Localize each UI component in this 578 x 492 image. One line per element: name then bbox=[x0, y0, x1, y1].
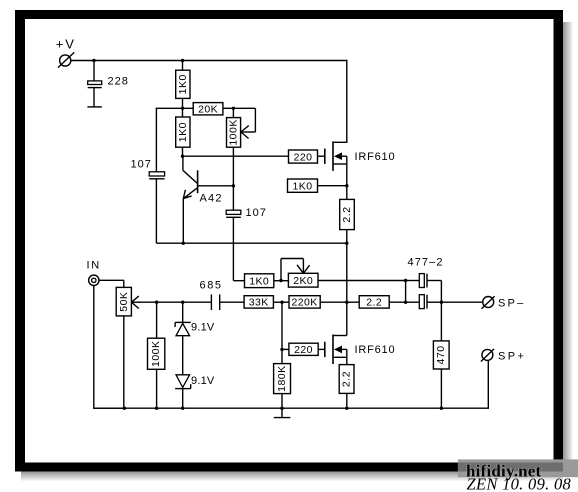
capacitor C6 477 (lower output cap) bbox=[406, 295, 442, 309]
svg-text:33K: 33K bbox=[249, 297, 269, 309]
label C1 value 228 bbox=[108, 76, 129, 88]
resistor R5 1K0 (horizontal, Q1 source to gate node) bbox=[288, 179, 347, 192]
node junction signal/zeners (dot) bbox=[181, 301, 184, 304]
svg-text:IRF610: IRF610 bbox=[355, 344, 396, 356]
label C5/C6 value 477-2 bbox=[408, 257, 444, 269]
capacitor C3 107 (Q2 base to feedback) bbox=[226, 186, 241, 281]
capacitor C5 477 (upper output cap) bbox=[406, 274, 442, 288]
wire signal line (wiper to C4) bbox=[138, 301, 211, 303]
capacitor C2 107 (left, node A decoupling) bbox=[149, 172, 164, 243]
mosfet Q1 body arrow (points left) bbox=[334, 152, 347, 160]
transistor Q2 emitter lead with arrow (down-left, to feedback line) bbox=[183, 188, 197, 244]
svg-text:IRF610: IRF610 bbox=[355, 151, 396, 163]
node junction R14/ground rail (dot) bbox=[280, 407, 283, 410]
svg-text:2K0: 2K0 bbox=[293, 275, 313, 287]
resistor R10 1K0 (feedback, horizontal) bbox=[245, 274, 289, 288]
wire source return line (C2/Q2 emitter to Q1 source node) bbox=[156, 242, 346, 244]
node junction 33K/220K/gate leg (dot) bbox=[273, 301, 289, 304]
resistor R4 220 (Q1 gate stopper) bbox=[289, 150, 325, 163]
svg-text:107: 107 bbox=[131, 159, 152, 171]
svg-text:470: 470 bbox=[435, 345, 447, 364]
svg-text:ZEN 10. 09. 08: ZEN 10. 09. 08 bbox=[467, 475, 572, 492]
mosfet Q3 drain stub (from output node) bbox=[333, 302, 347, 335]
svg-text:2.2: 2.2 bbox=[366, 297, 382, 309]
wire R11 to caps bbox=[389, 301, 405, 303]
wire caps right bus bbox=[440, 281, 443, 304]
node junction 20K/VR1 top bbox=[232, 107, 235, 110]
svg-text:SP+: SP+ bbox=[498, 350, 526, 362]
node junction R5/Q1 source (dot) bbox=[345, 184, 348, 187]
svg-text:477–2: 477–2 bbox=[408, 257, 444, 269]
resistor R15 2.2 (Q3 source resistor) bbox=[339, 365, 354, 409]
svg-text:+V: +V bbox=[56, 37, 76, 52]
mosfet Q1 drain stub (to +V rail) bbox=[333, 141, 347, 143]
node +V (power input terminal) bbox=[56, 37, 76, 68]
resistor R1 1K0 (vertical, from +V rail) bbox=[176, 61, 190, 109]
mosfet Q3 body arrow (points left) bbox=[334, 346, 347, 354]
potentiometer VR2 50K (volume, vertical) bbox=[116, 287, 131, 408]
wire ground rail (bottom horizontal) bbox=[94, 407, 489, 409]
resistor R2 1K0 (vertical, node A to Q1 gate node) bbox=[176, 108, 190, 157]
node junction R7/ground rail (dot) bbox=[155, 407, 158, 410]
node junction return/Q1 source line (dot) bbox=[345, 242, 348, 245]
diode D1 zener 9.1V (upper) bbox=[175, 302, 191, 375]
trimmer VR1 100K (vertical pot) bbox=[227, 108, 241, 147]
node junction VR2 bottom/ground rail (dot) bbox=[123, 407, 126, 410]
resistor R13 220 (Q3 gate stopper) bbox=[289, 343, 325, 356]
node junction +V/R1 bbox=[181, 59, 184, 62]
svg-text:180K: 180K bbox=[276, 365, 288, 392]
label C2 value 107 bbox=[131, 159, 152, 171]
wire 33K-220K node down leg bbox=[281, 302, 283, 363]
transistor Q2 collector lead (up-left to gate-drive node) bbox=[183, 156, 198, 184]
svg-text:20K: 20K bbox=[198, 103, 218, 115]
svg-text:1K0: 1K0 bbox=[177, 122, 189, 142]
wire VR1 bottom to Q2 base node bbox=[232, 147, 234, 186]
node junction R15/ground rail (dot) bbox=[345, 407, 348, 410]
wire IN to VR2 top bbox=[99, 280, 124, 287]
resistor R3 20K (horizontal) bbox=[193, 103, 233, 116]
label D1 9.1V bbox=[191, 322, 215, 334]
svg-text:IN: IN bbox=[87, 260, 101, 272]
capacitor C4 685 (input coupling) bbox=[211, 294, 244, 310]
svg-text:228: 228 bbox=[108, 76, 129, 88]
wire +V rail (top horizontal, turns down at right to Q1 drain) bbox=[71, 60, 348, 143]
wire caps left bus bbox=[404, 279, 407, 304]
label Q3 IRF610 bbox=[355, 344, 396, 356]
wire VR3 to output coupling caps bbox=[318, 280, 406, 282]
ground stub below rail (T end) bbox=[274, 408, 291, 417]
wire feedback tap (C3 lead corner to R10) bbox=[233, 280, 244, 282]
node Q1-gate-drive junction (R2 bottom, dot) bbox=[181, 155, 184, 158]
node Q2 base junction (dot) bbox=[232, 184, 235, 187]
transistor Q2 A42 (NPN, base bar) bbox=[197, 170, 199, 193]
wire node A to left corner (down to C2) bbox=[156, 108, 193, 173]
svg-text:2.2: 2.2 bbox=[341, 206, 353, 222]
node junction Q2 emitter/return (dot) bbox=[182, 242, 185, 245]
svg-text:A42: A42 bbox=[200, 193, 223, 205]
svg-text:100K: 100K bbox=[150, 340, 162, 367]
mosfet Q3 IRF610 gate bar bbox=[324, 342, 326, 357]
svg-text:220: 220 bbox=[294, 344, 313, 356]
resistor R12 470 (output shunt, vertical) bbox=[433, 302, 449, 408]
resistor R7 100K (input bias, vertical) bbox=[148, 302, 165, 408]
wire VR2 wiper arrow (to signal line) bbox=[131, 296, 140, 308]
resistor R14 180K (vertical) bbox=[274, 364, 291, 409]
label Q1 IRF610 bbox=[355, 151, 396, 163]
svg-text:9.1V: 9.1V bbox=[191, 322, 215, 334]
capacitor C1 228 (supply bypass) bbox=[87, 61, 102, 107]
svg-text:SP–: SP– bbox=[498, 298, 525, 310]
node A junction (R1/R2/20K, dot) bbox=[181, 107, 184, 110]
node junction output node (dot) bbox=[345, 301, 348, 304]
svg-text:100K: 100K bbox=[228, 119, 240, 146]
mosfet Q1 IRF610 gate bar bbox=[324, 149, 326, 164]
label Q2 A42 bbox=[200, 193, 223, 205]
diode D2 zener 9.1V (lower) bbox=[175, 375, 191, 408]
svg-text:220: 220 bbox=[294, 151, 313, 163]
svg-text:1K0: 1K0 bbox=[293, 180, 313, 192]
mosfet Q3 source stub bbox=[333, 349, 347, 364]
node junction +V/C1 bbox=[92, 59, 95, 62]
resistor R9 220K (horizontal) bbox=[289, 296, 359, 309]
transistor Q2 base lead (right to VR1/C3 node) bbox=[198, 185, 234, 187]
resistor R6 2.2 (Q1 source resistor) bbox=[340, 186, 355, 303]
mosfet Q1 channel bar bbox=[332, 141, 334, 171]
mosfet Q1 source stub bbox=[333, 156, 347, 186]
svg-text:685: 685 bbox=[200, 280, 223, 292]
svg-text:220K: 220K bbox=[292, 297, 318, 309]
label D2 9.1V bbox=[191, 375, 215, 387]
node SP+ (speaker positive terminal) bbox=[481, 349, 526, 409]
node junction D2/ground rail (dot) bbox=[181, 407, 184, 410]
wire gate drive (node to R4 220, crosses VR1 lead without dot) bbox=[183, 155, 289, 157]
watermark band hifidiy.net bbox=[458, 459, 578, 480]
label C3 value 107 bbox=[246, 207, 267, 219]
svg-text:1K0: 1K0 bbox=[249, 275, 269, 287]
watermark date ZEN 10. 09. 08 bbox=[467, 475, 572, 492]
node junction R10/VR3 (dot) bbox=[279, 279, 282, 282]
svg-text:50K: 50K bbox=[118, 292, 130, 312]
node SP- (speaker negative terminal) bbox=[441, 296, 525, 310]
label C4 value 685 bbox=[200, 280, 223, 292]
node junction R12/ground rail (dot) bbox=[440, 407, 443, 410]
svg-text:9.1V: 9.1V bbox=[191, 375, 215, 387]
resistor R11 2.2 (output, horizontal) bbox=[359, 296, 389, 309]
mosfet Q3 channel bar bbox=[332, 335, 334, 365]
resistor R8 33K (horizontal) bbox=[244, 296, 273, 309]
wire IN down to ground rail bbox=[94, 286, 125, 409]
node junction signal/R7 (dot) bbox=[155, 301, 158, 304]
wire VR1 wiper (hook from top junction, arrow into body) bbox=[233, 108, 255, 138]
svg-text:107: 107 bbox=[246, 207, 267, 219]
svg-text:1K0: 1K0 bbox=[177, 74, 189, 94]
trimmer VR3 2K0 (horizontal pot with wiper loop) bbox=[281, 259, 318, 288]
svg-text:2.2: 2.2 bbox=[341, 371, 353, 387]
node junction leg/R13 220 (dot) bbox=[280, 348, 289, 351]
node IN (input terminal) bbox=[87, 260, 101, 286]
